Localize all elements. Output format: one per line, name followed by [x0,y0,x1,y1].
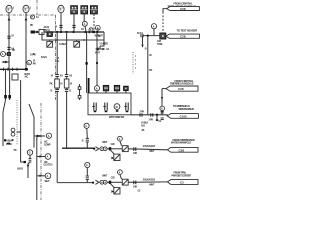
smudge labels under connector box [157,40,163,46]
splice arrow at y=62 [2,61,10,63]
wire down x=20.6 [21,80,24,162]
wire down x=28 [28,155,30,178]
branch up x=162 to ribbon3 [161,89,163,115]
smudge left of ribbon6 wire [133,183,155,188]
connector circle branch2 [45,173,51,179]
svg-text:5 14RED: 5 14RED [100,42,109,45]
svg-text:PK: PK [33,62,36,65]
svg-text:A5 C1: A5 C1 [137,32,144,35]
resistor feed wire 2 [66,32,68,79]
thick wire x=88 into module [88,78,90,98]
cluster2 chevron connector [95,180,99,184]
splice marks near x=91 [89,31,95,33]
svg-text:WHT: WHT [149,150,155,153]
component box on bus B1 [39,30,44,35]
cluster1 output wire to ribbon5 [128,149,167,150]
connector circle C-left [1,52,6,57]
tiny square S1 on stub [78,87,81,90]
smudge labels right of x=26 wire [33,53,36,65]
bus end vertical drop x=104 [100,32,104,46]
tick under circle [153,29,155,36]
splice blob left end of bus [31,31,35,34]
svg-text:PWR DIST CENTER: PWR DIST CENTER [172,174,192,177]
junction dot on line2 [92,182,94,184]
wire from S1 down [73,14,75,32]
tick marks on ground bus [4,68,18,71]
solenoid box X1 on rail [47,40,53,47]
module pin square P1 [103,85,108,90]
svg-text:PK: PK [149,69,152,72]
cluster2 junction blob [109,181,111,184]
left edge smudges under output wire [141,121,149,132]
ribbon pointer R6 [167,180,198,185]
wire from ribbon R3 [162,88,166,90]
svg-text:TO TEST HEADER: TO TEST HEADER [177,28,198,32]
vertical smudge text right of dotted x=133 [135,56,136,69]
inline connector knot on G1 wire y=48 [7,47,10,49]
svg-text:2 BLK/A21 B: 2 BLK/A21 B [143,179,156,182]
cluster1 circled letter above [118,136,123,141]
arrow mark on rail 2 [84,39,87,41]
wire from G1 down [8,13,10,70]
cluster1 solenoid box X3 [122,146,128,152]
housing bottom cluster smudge [4,139,14,146]
junction box on wire at y=54 [7,52,10,55]
resistor box R2 [64,79,69,88]
harness boundary dotted vertical x=133 [132,52,134,74]
inline connector on R2 wire [141,34,143,37]
resistor feed wire 1 [56,32,58,79]
dashed wire from S3 down [93,14,95,32]
long vertical wire x=147.8 from test-header wire down to wiper wire [147,36,149,116]
main bus wire y=32 [32,31,104,33]
wire down x=36 from junction [36,136,38,200]
tiny square S2 on stub [78,96,81,99]
ground bus y=69.3 [0,68,28,70]
splice circle on bus at x=91 [89,28,93,32]
cluster1 solenoid box X4 [114,154,120,160]
cluster1 diagonal stub to X4 [110,150,114,155]
connector circle on G2 wire [27,60,32,65]
harness boundary dash-dot vertical top-left [36,0,38,15]
lower connector on wire 1 [56,89,59,91]
svg-text:PK: PK [14,149,17,152]
wire from S2 down [84,14,86,93]
connector box on R2 wire [160,33,166,39]
svg-text:TO28: TO28 [157,43,163,46]
cluster1 chevron connector [95,147,99,151]
svg-text:WHT: WHT [95,52,101,55]
svg-text:WHT: WHT [149,183,155,186]
svg-text:2 BLK/A21 B: 2 BLK/A21 B [143,145,156,148]
lower connector on wire 2 [65,89,68,91]
inline connector on G3 wire [59,25,62,27]
inline connector on output wire 2 [151,113,153,116]
junction dot at top of long vertical [147,35,149,37]
output wire from module bottom y=114.8 [131,115,167,116]
ribbon pointer R3 [166,86,198,91]
svg-text:WHT: WHT [45,180,51,183]
arrow into X6 [111,190,114,193]
cluster2 connector circle pair B [103,180,107,184]
cluster2 output wire to ribbon6 [128,181,167,183]
smudge labels right of boundary [57,57,61,63]
dotted inner line x=17 blower housing [16,100,18,145]
module pin square P3 [124,86,129,90]
svg-text:PK: PK [50,83,53,86]
lower line2 y=183.2 [57,182,94,184]
svg-text:COMP: COMP [44,143,51,146]
svg-text:C105: C105 [180,115,188,119]
svg-text:PK: PK [30,24,33,27]
svg-text:2 PK: 2 PK [149,118,154,121]
connector blob on wire A [4,95,7,98]
fuse block S3 [90,6,97,14]
connector circle on S2 wire [82,21,87,26]
pin symbol inside module 2 [103,103,107,111]
smudge under R5 wire [149,150,155,153]
svg-text:WHT: WHT [102,141,108,144]
fuse block S1 [71,6,78,14]
svg-text:TIMER/RELAY MODULE: TIMER/RELAY MODULE [170,83,194,86]
crimp dot pin3 [126,111,129,113]
tick from circle to wire [6,53,10,55]
pin symbol inside module 1 [92,103,96,111]
svg-text:WTR TEMP SW: WTR TEMP SW [109,116,125,119]
arrow on branch 1 [39,155,42,157]
svg-text:WHT: WHT [102,175,108,178]
wire x=97 down to module [96,32,98,86]
wire from G3 down [60,13,62,32]
svg-text:14B: 14B [133,152,137,155]
ribbon pointer R4 [167,114,198,119]
svg-text:C2: C2 [180,181,184,185]
down arrow on x=28 wire [27,165,30,168]
solenoid box X2 on rail [74,40,80,47]
smudge labels along long vertical [149,54,152,72]
cluster1 wire to solenoid [107,148,122,150]
cluster1 junction blob [109,147,111,150]
connector circle branch1 [45,154,51,160]
svg-text:A/C: A/C [25,76,29,79]
stacked bars under circle [86,138,89,142]
inline connector on cluster2 output [134,181,136,185]
crimp dot under motor [116,110,119,112]
smudge labels left of drop [97,28,101,38]
cluster1 connector circle pair B [103,147,107,151]
lamp circle pair in housing [11,128,15,136]
junction dot on wire [36,135,38,137]
inline connector on output wire 1 [140,113,142,116]
inline connector knot on G1 wire y=37 [7,36,10,38]
stacked bars below wire [161,118,164,120]
ribbon pointer R1 top [167,7,200,12]
lower rail wire y=40 [42,32,104,40]
svg-text:14B: 14B [133,185,137,188]
connector circle G1 top-left [6,5,12,12]
lower thick line y=147.6 [62,147,95,149]
arrow mark on housing wire [39,135,42,137]
harness boundary dash-dot vertical x=55.5 [55,15,57,100]
stacked bars connector on branch [161,111,164,113]
ribbon pointer R5 [167,147,198,152]
cluster2 link from circle to box [120,175,122,180]
connector circle G2 [23,5,29,12]
cluster2 wire to solenoid [107,181,122,183]
svg-text:CLUTCH: CLUTCH [44,164,53,167]
inline connector on wire 1 [56,75,59,77]
fuse block S2 [81,6,88,14]
pin symbol inside module 3 [124,103,128,111]
dashed wire down x=162 [162,12,164,33]
connector circle on branch [160,106,165,111]
wire from G2 down [25,13,27,70]
connector circle mid right [151,24,156,29]
wire from housing right y=136 [34,135,45,137]
svg-text:WHT/OR MANIFOLD: WHT/OR MANIFOLD [171,142,191,145]
connector circle right of S3 wire [95,25,100,30]
crimp dot pin2 [105,111,108,113]
svg-text:C28: C28 [179,148,185,152]
connector circle above line2 [85,162,90,167]
svg-text:14 BLK: 14 BLK [59,43,67,46]
connector circle above line [84,123,89,128]
wire below R1 [56,88,58,183]
wire down left A x=5.5 [5,69,7,100]
connector circle above module [94,86,99,91]
inline connector on S1 wire [72,25,75,27]
arrow on branch 2 [39,175,42,177]
wire from ribbon R1 [163,9,167,12]
splice dot cluster at bus end [96,46,106,51]
branch wire y=175.8 [37,175,45,177]
svg-text:2 PK: 2 PK [140,111,145,114]
connector circle bottom-left cluster [27,150,32,155]
module pin square P2 [114,85,119,90]
cluster2 diagonal stub to X6 [110,183,114,188]
svg-text:C28: C28 [178,87,184,91]
cluster2 circled letter above [118,170,123,175]
wire into ribbon R2 [143,35,160,37]
stacked bars under circle line2 [86,176,89,180]
cluster2 solenoid box X6 [114,188,120,194]
arrow mark on rail [56,39,59,41]
junction ticks on bus [56,31,98,33]
resistor box R1 [55,79,60,88]
arrow down on stub [141,45,143,48]
svg-text:WIPERS/WSHR: WIPERS/WSHR [179,108,195,111]
harness boundary dash-dot vertical x=41 bottom [40,103,42,200]
motor circle inside module [114,104,120,110]
cluster1 connector circle pair A [100,147,104,151]
connector circle A/C comp [46,133,51,138]
arrowhead up on G2 wire [25,17,28,20]
connector circle at x=32.5 y=17 [31,15,35,19]
small box under bus [12,74,18,80]
wire below R2 down to lower line [66,88,68,148]
cluster2 connector circle pair A [100,180,104,184]
junction square on ground bus [25,68,28,71]
junction square on x=86.6 wire [85,62,87,64]
svg-text:C28: C28 [180,35,186,39]
junction dot on output wire [156,114,158,116]
junction blob at corner [24,161,26,163]
svg-text:M: M [116,106,118,109]
cluster2 solenoid box X5 [122,179,128,185]
vertical stub x=142.5 [142,36,144,45]
control module box U1 [88,93,131,115]
junction dot on x=97 wire [96,62,98,64]
svg-text:C28: C28 [180,7,186,11]
stub line x=79.5 [79,84,81,100]
label under branch1 circle [44,161,53,167]
stub from circle to line [86,128,89,147]
component box on bus B2 [47,32,52,37]
svg-text:A20 B: A20 B [17,167,23,170]
crimp dot pin1 [94,111,97,113]
inline connector on wire 2 [65,75,68,77]
arrowhead up on G1 wire [8,17,11,20]
squiggle connector under circle [29,158,32,162]
harness boundary dash-dot horizontal y=15 [0,14,56,16]
pin stubs into module [97,91,126,93]
bottom-left wire corner [21,161,24,163]
cluster1 link from circle to box [120,141,122,146]
blower housing right wall [29,104,34,148]
connector circle G3 [58,5,64,12]
junction dot right end [93,148,95,150]
inline connector on cluster1 output [134,147,136,151]
arrowhead down on branch [161,97,163,100]
ribbon pointer R2 [166,34,200,39]
arrow into X4 [111,157,114,160]
svg-text:PK: PK [12,49,15,52]
svg-text:B A21: B A21 [41,56,48,59]
wire down left B x=9.6 [9,69,11,100]
connector blob on wire B [8,95,11,98]
branch wire y=156.5 [37,156,45,158]
stub from circle to line2 [86,168,88,183]
blower housing left wall [3,100,6,146]
